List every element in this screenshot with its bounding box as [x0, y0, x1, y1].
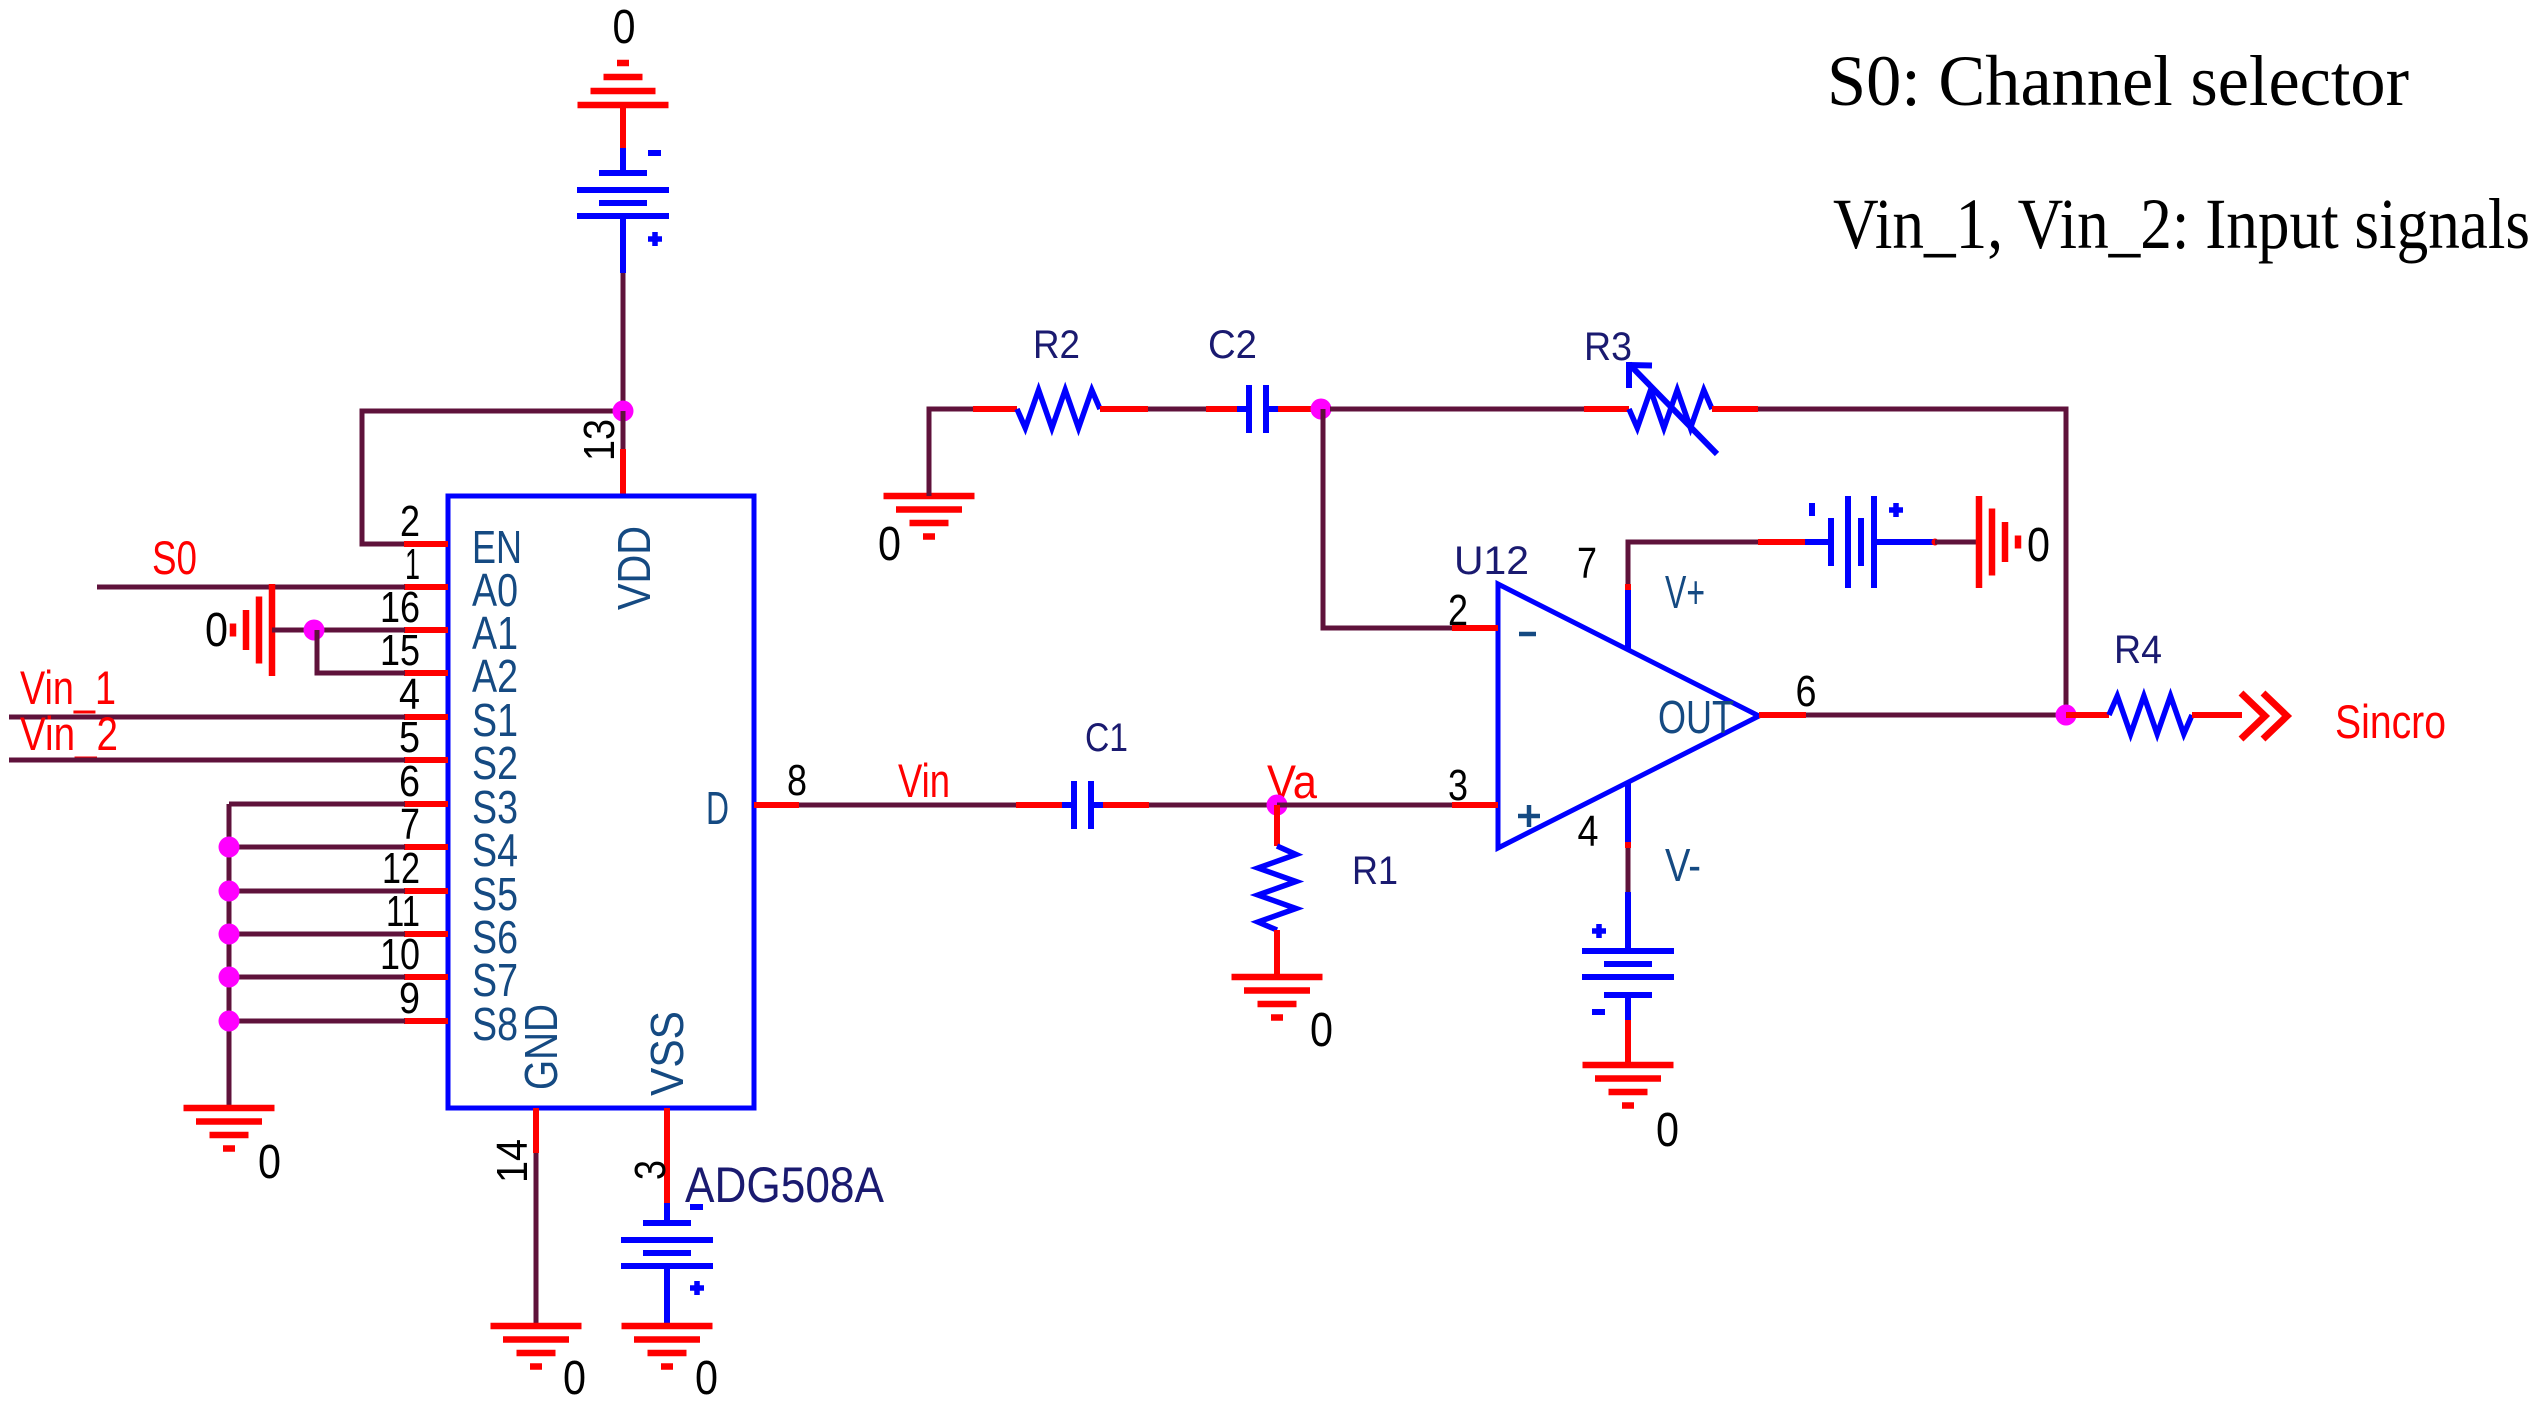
svg-text:R3: R3 [1584, 325, 1632, 369]
wire ground to A1 junction [272, 628, 314, 633]
svg-text:R1: R1 [1352, 849, 1398, 893]
junction bus S7 tap [219, 967, 240, 988]
resistor R1 [1258, 805, 1296, 977]
svg-text:13: 13 [575, 419, 624, 461]
svg-text:0: 0 [2027, 519, 2050, 572]
pin 5 S2 [399, 713, 518, 789]
pin 16 A1 [380, 583, 518, 659]
svg-text:C1: C1 [1085, 716, 1128, 760]
junction output node [2056, 705, 2077, 726]
net label Vin [898, 754, 950, 807]
wire bus to S4 pin [229, 845, 405, 850]
IC U-mux ADG508A body [448, 496, 754, 1108]
svg-text:7: 7 [1577, 539, 1597, 588]
svg-text:3: 3 [1448, 761, 1468, 810]
label R4 [2114, 628, 2162, 672]
wire S0 to A0 pin [97, 585, 405, 590]
pin 10 S7 [380, 930, 518, 1006]
pin name VDD (rotated) [608, 526, 660, 610]
svg-text:5: 5 [399, 713, 420, 762]
svg-text:2: 2 [1448, 586, 1468, 635]
resistor R3 (variable) [1584, 362, 1758, 454]
svg-text:7: 7 [400, 800, 420, 849]
net label Vin_1 [20, 661, 116, 714]
junction bus S5 tap [219, 881, 240, 902]
resistor R2 [973, 390, 1148, 428]
junction bus S8 tap [219, 1011, 240, 1032]
ground 0 (GND pin) [491, 1326, 587, 1405]
svg-text:4: 4 [1578, 807, 1599, 856]
svg-text:1: 1 [405, 540, 420, 589]
pin 6 S3 [399, 757, 518, 833]
svg-text:VSS: VSS [641, 1011, 693, 1096]
junction C2/R3 node [1311, 399, 1332, 420]
svg-text:8: 8 [787, 756, 807, 805]
svg-text:V-: V- [1665, 839, 1701, 891]
wire ground to R2 [929, 409, 973, 496]
wire battery to VDD junction [621, 273, 626, 411]
wire junction to R3 [1330, 407, 1584, 412]
svg-text:0: 0 [613, 1, 636, 54]
pin 2 EN [400, 497, 522, 573]
wire R3 to output node [1758, 409, 2066, 715]
pin 12 S5 [382, 844, 518, 920]
battery V+ supply (horizontal) [1758, 496, 1939, 588]
svg-text:0: 0 [695, 1352, 718, 1405]
svg-text:0: 0 [563, 1352, 586, 1405]
op-amp U12 body [1498, 584, 1759, 848]
svg-text:11: 11 [386, 887, 420, 936]
wire Vin_2 to S2 pin [9, 758, 405, 763]
ground 0 (S3-S8 bus) [184, 1108, 282, 1189]
label R2 [1033, 323, 1080, 367]
label ADG508A [685, 1157, 885, 1213]
ground 0 (R2 input) [878, 496, 975, 571]
pin 11 S6 [386, 887, 518, 963]
wire C1 to Va junction [1149, 803, 1277, 808]
pin 14 GND stub [488, 1108, 537, 1183]
wire junction to A1 pin [314, 628, 405, 633]
wire bus to S8 pin [229, 1019, 405, 1024]
ground 0 (VDD supply, inverted) [578, 1, 669, 105]
label R1 [1352, 849, 1398, 893]
svg-text:VDD: VDD [608, 526, 660, 610]
pin 4 S1 [399, 670, 518, 746]
ground 0 (V- supply) [1583, 1065, 1680, 1157]
svg-text:S8: S8 [472, 998, 518, 1050]
svg-text:15: 15 [380, 626, 420, 675]
pin 3 VSS stub [626, 1108, 675, 1203]
wire junction to op-amp pin 2 [1323, 409, 1452, 628]
wire V+ pin to battery [1628, 542, 1758, 584]
svg-text:S0: Channel selector: S0: Channel selector [1827, 41, 2409, 121]
note: Vin_1 Vin_2 input signals [1833, 184, 2530, 264]
svg-text:0: 0 [878, 518, 901, 571]
svg-text:R4: R4 [2114, 628, 2162, 672]
op-amp pin 3 stub (non-inverting) [1448, 761, 1498, 810]
svg-text:14: 14 [488, 1139, 537, 1183]
svg-text:16: 16 [380, 583, 420, 632]
wire Vin_1 to S1 pin [9, 715, 405, 720]
op-amp pin 2 stub (inverting) [1448, 586, 1498, 635]
resistor R4 [2066, 696, 2242, 734]
svg-text:12: 12 [382, 844, 420, 893]
svg-text:ADG508A: ADG508A [685, 1157, 885, 1213]
ground 0 (V+ supply) [1979, 496, 2050, 588]
svg-text:OUT: OUT [1658, 691, 1734, 743]
net label Va [1267, 755, 1318, 808]
wire R2 to C2 [1148, 407, 1206, 412]
svg-text:4: 4 [399, 670, 420, 719]
wire battery to ground (V+) [1935, 540, 1979, 545]
op-amp pin 4 V- [1578, 782, 1702, 891]
svg-text:R2: R2 [1033, 323, 1080, 367]
net label S0 [152, 531, 197, 584]
label C2 [1208, 323, 1257, 367]
junction VDD node [613, 401, 634, 422]
op-amp pin 7 V+ [1577, 539, 1705, 650]
battery V-VDD (VDD supply) [577, 105, 669, 273]
ground 0 (A1/A2) [205, 584, 272, 676]
wire V- pin to battery [1626, 848, 1631, 892]
svg-text:2: 2 [400, 497, 420, 546]
svg-text:Sincro: Sincro [2335, 695, 2446, 748]
wire bus to S3 pin [229, 802, 405, 807]
pin name GND (rotated) [515, 1004, 567, 1090]
wire D pin to C1 [799, 803, 1016, 808]
svg-text:Vin: Vin [898, 754, 950, 807]
pin 7 S4 [400, 800, 518, 876]
svg-text:0: 0 [258, 1136, 281, 1189]
ground 0 (VSS) [622, 1326, 719, 1405]
label U12 [1454, 539, 1529, 583]
connector Sincro (off-page, double chevron) [2241, 693, 2287, 739]
junction A1 node [304, 620, 325, 641]
svg-text:C2: C2 [1208, 323, 1257, 367]
capacitor C2 [1206, 385, 1312, 433]
pin name VSS (rotated) [641, 1011, 693, 1096]
pin 15 A2 [380, 626, 518, 702]
wire bus to S7 pin [229, 975, 405, 980]
op-amp pin 6 OUT stub [1658, 667, 1817, 743]
junction bus S4 tap [219, 837, 240, 858]
svg-text:3: 3 [626, 1160, 675, 1180]
wire bus to S5 pin [229, 889, 405, 894]
wire VDD junction to pin 13 [621, 411, 626, 449]
svg-text:V+: V+ [1665, 566, 1705, 618]
junction Va node [1267, 795, 1288, 816]
label C1 [1085, 716, 1128, 760]
capacitor C1 [1016, 781, 1149, 829]
wire GND pin to ground [534, 1153, 539, 1326]
pin 1 A0 [404, 540, 518, 616]
battery V- supply [1582, 892, 1674, 1065]
pin 8 D [706, 756, 807, 834]
junction bus S6 tap [219, 924, 240, 945]
wire OUT to output junction [1806, 713, 2066, 718]
svg-text:D: D [706, 782, 729, 834]
svg-text:Vin_1, Vin_2: Input signals: Vin_1, Vin_2: Input signals [1833, 184, 2530, 264]
wire S3-S8 bus vertical [227, 804, 232, 1108]
svg-text:GND: GND [515, 1004, 567, 1090]
pin 9 S8 [399, 974, 518, 1050]
svg-text:S0: S0 [152, 531, 197, 584]
ground 0 (R1) [1232, 977, 1334, 1057]
svg-text:Vin_2: Vin_2 [20, 707, 118, 760]
net label Sincro [2335, 695, 2446, 748]
svg-text:10: 10 [380, 930, 420, 979]
pin 13 VDD stub [575, 419, 624, 496]
svg-text:0: 0 [1310, 1004, 1333, 1057]
wire bus to S6 pin [229, 932, 405, 937]
label R3 [1584, 325, 1632, 369]
svg-text:0: 0 [1656, 1104, 1679, 1157]
wire Va to pin 3 [1277, 803, 1452, 808]
battery V-VSS (VSS supply) [621, 1203, 713, 1326]
note: S0 channel selector [1827, 41, 2409, 121]
net label Vin_2 [20, 707, 118, 760]
wire junction to A2 pin [317, 630, 405, 673]
svg-text:6: 6 [399, 757, 420, 806]
svg-text:9: 9 [399, 974, 420, 1023]
svg-text:0: 0 [205, 604, 228, 657]
svg-text:6: 6 [1796, 667, 1817, 716]
wire VDD junction to EN pin [362, 411, 623, 544]
svg-text:U12: U12 [1454, 539, 1529, 583]
